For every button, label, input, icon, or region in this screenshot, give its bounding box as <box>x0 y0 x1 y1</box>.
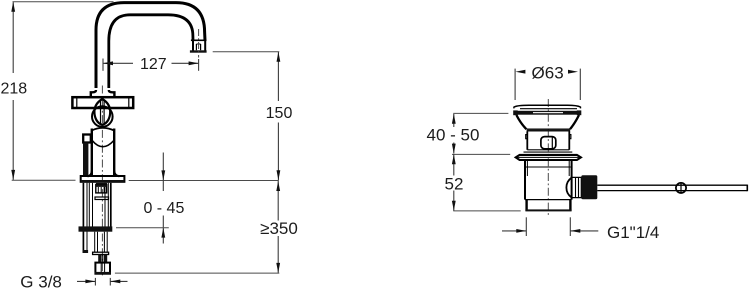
overflow window <box>541 137 556 149</box>
dimension 150 line bottom segment <box>277 123 279 181</box>
svg-text:≥350: ≥350 <box>260 219 298 238</box>
cap rim end lips <box>513 110 518 115</box>
body inner U curve <box>92 141 114 147</box>
pivot rod bottom <box>597 190 747 192</box>
dimension 150 arrow up <box>277 52 281 62</box>
cone neck left <box>516 115 526 129</box>
dimension G1 left line and arrow <box>502 230 526 232</box>
shank lines <box>88 183 90 227</box>
shank collar band <box>95 197 109 200</box>
rod ball <box>676 183 686 193</box>
handle front spoke teardrop <box>94 99 110 125</box>
svg-text:G1"1/4: G1"1/4 <box>607 223 659 242</box>
wire: bottom extension line (hose end level) <box>115 272 279 274</box>
handle bar end lines <box>76 97 78 108</box>
upper cylinder bottom line <box>527 149 569 151</box>
upper cylinder right side <box>568 132 570 150</box>
body seam line <box>526 166 571 168</box>
step shoulder line <box>525 199 572 201</box>
handle spoke inner lines <box>100 100 102 124</box>
svg-text:127: 127 <box>140 56 167 73</box>
dimension 40-50/52 line: top arrow up <box>453 114 455 127</box>
drain body right side <box>571 160 573 200</box>
dimension 218 line bottom segment <box>12 100 14 180</box>
svg-text:52: 52 <box>445 175 464 194</box>
side knob square <box>83 135 91 143</box>
dimension 127 left tick <box>102 59 104 71</box>
dimension G3/8 right line and arrow <box>110 280 127 282</box>
svg-text:0 - 45: 0 - 45 <box>143 200 184 217</box>
dimension G3/8 left line and arrow <box>77 280 95 282</box>
faucet vertical centerline <box>101 86 103 278</box>
dimension ge350 arrow down <box>276 263 280 273</box>
dimension 127 arrow right <box>189 61 199 65</box>
aerator left edge <box>192 40 194 51</box>
cap rim line <box>520 108 577 110</box>
dimension G3/8 right tick <box>109 278 111 286</box>
drain body left side <box>524 160 526 200</box>
dimension 127 line left segment <box>103 62 133 64</box>
base flange <box>81 176 125 182</box>
rod ball center line <box>680 183 682 192</box>
centerline of outlet <box>198 29 200 58</box>
G1 tube right side <box>569 200 571 211</box>
wire: left mounting reference line (flange top) <box>12 179 76 181</box>
spout outlet junction line <box>191 39 207 41</box>
cap rim band white slit <box>533 112 563 113</box>
left step nub <box>526 135 528 139</box>
wire: extension line mid ref <box>452 153 510 155</box>
spout outer contour <box>96 3 205 88</box>
body right side <box>113 129 115 176</box>
spout base collar <box>91 90 115 97</box>
pivot rings <box>572 177 582 197</box>
svg-text:Ø63: Ø63 <box>532 64 564 83</box>
spout inner contour <box>109 15 193 88</box>
wire: extension line 40-50 top ref <box>453 112 508 114</box>
dimension D63 left tick <box>514 69 516 100</box>
cap dome end drops <box>513 107 515 109</box>
svg-text:218: 218 <box>0 81 27 98</box>
washer line above flange <box>524 151 573 153</box>
svg-text:G 3/8: G 3/8 <box>20 273 62 288</box>
aerator inner marks <box>195 44 197 50</box>
dimension 40-50 line lower part with arrow down <box>453 143 455 154</box>
pivot rod top <box>597 184 747 186</box>
dimension D63 arrow right <box>568 70 578 74</box>
dimension 52 line upper part with arrow up <box>453 154 455 175</box>
svg-text:40 - 50: 40 - 50 <box>427 126 480 145</box>
dimension 218 arrow up <box>11 2 15 12</box>
tail collar <box>93 252 109 254</box>
dimension 0-45 arrow down <box>161 170 165 180</box>
shank below clamp <box>94 232 96 253</box>
dimension ge350 line bottom segment <box>277 236 279 273</box>
supply hose left pair <box>82 183 84 253</box>
dimension ge350 line top segment <box>277 181 279 221</box>
dimension 0-45 line bottom segment <box>162 216 164 244</box>
right step nub <box>569 135 571 139</box>
thread hatch under flange <box>96 183 107 185</box>
dimension 127 right tick <box>198 59 200 71</box>
drain flange <box>516 155 581 160</box>
cap dome top <box>514 105 581 107</box>
aerator right edge <box>204 40 206 51</box>
body left side <box>91 129 93 176</box>
body flare right <box>114 171 119 177</box>
aerator bottom bar <box>190 50 207 52</box>
cone neck right <box>570 115 579 129</box>
dimension D63 right tick <box>579 69 581 100</box>
dimension G1 right tick <box>569 217 571 236</box>
overflow window inner line <box>551 137 553 149</box>
pivot socket arc <box>566 178 571 198</box>
dimension 218 arrow down <box>11 170 15 180</box>
wire: clamp top extension line <box>116 227 169 229</box>
handle cross bar <box>72 97 133 108</box>
nut bottom thick edge <box>95 272 111 274</box>
wire: top extension line of spout (218 ref) <box>13 1 114 3</box>
drain body inner wall lines <box>526 160 528 176</box>
wire: extension line outlet to 150 dim <box>213 51 280 53</box>
handle bonnet circle <box>92 106 113 127</box>
dimension G1 right line and arrow <box>570 230 598 232</box>
G1 tube left side <box>525 200 527 211</box>
cone seam line <box>527 128 571 130</box>
dimension 0-45 arrow up <box>161 228 165 238</box>
dimension 127 arrow left <box>103 61 113 65</box>
drain flange mid line <box>516 156 581 158</box>
cap rim dark band <box>514 111 581 115</box>
dimension 127 line right segment <box>172 62 199 64</box>
dimension D63 arrow left <box>515 70 525 74</box>
cone seam dark band <box>527 130 571 132</box>
dimension 150 arrow down <box>277 170 281 180</box>
pivot rod end cap <box>746 185 748 192</box>
side dark bar <box>83 143 88 176</box>
base flange bottom thick edge <box>81 180 125 183</box>
dimension G3/8 left tick <box>94 278 96 286</box>
dimension ge350 arrow up <box>276 181 280 191</box>
hose end block <box>83 250 89 253</box>
upper cylinder left side <box>526 132 528 150</box>
body flare left <box>88 171 92 177</box>
valve box <box>96 185 107 193</box>
threaded tailpiece <box>98 255 101 263</box>
drain centerline <box>547 99 549 217</box>
wire: counter surface line right of faucet <box>129 180 279 182</box>
G1 tube bottom thick edge <box>525 209 571 211</box>
dimension 0-45 line top segment <box>162 153 164 192</box>
wire: extension line bottom ref <box>453 210 520 212</box>
dimension G1 left tick <box>525 217 527 236</box>
body top dome <box>92 128 114 131</box>
dimension 218 line top segment <box>12 2 14 73</box>
dimension 150 line top segment <box>277 52 279 101</box>
dimension 52 line lower part with arrow down <box>453 191 455 211</box>
svg-text:150: 150 <box>266 105 293 122</box>
mounting clamp <box>79 226 113 231</box>
G3/8 nut <box>95 263 110 274</box>
pivot knurled nut <box>581 175 597 199</box>
